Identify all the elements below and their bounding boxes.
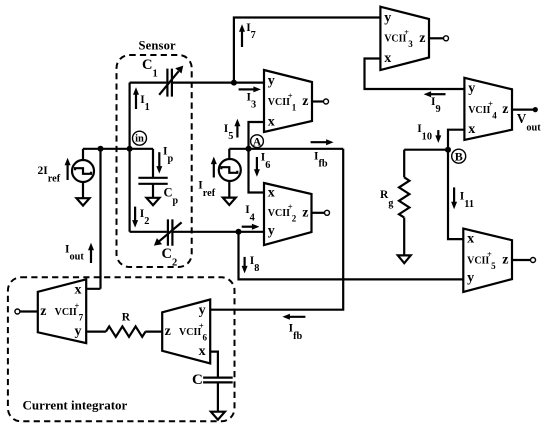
svg-text:7: 7: [79, 312, 84, 322]
node in circle: [133, 131, 147, 145]
svg-text:4: 4: [492, 111, 497, 121]
I5 current arrow: [234, 119, 240, 138]
wire VCII1 x pin down to node A: [249, 122, 265, 149]
wire R to VCII6 z: [145, 331, 162, 333]
VCII7 z terminal: [15, 309, 38, 314]
I11 current arrow: [451, 187, 457, 209]
svg-text:z: z: [302, 94, 308, 109]
Iout current arrow: [88, 243, 94, 263]
wire node B to Rg: [404, 149, 448, 151]
svg-text:+: +: [488, 99, 493, 109]
I1 current arrow: [133, 87, 139, 109]
svg-text:+: +: [75, 300, 80, 310]
svg-text:z: z: [40, 304, 46, 319]
wire VCII3 x to VCII4 y: [365, 59, 465, 90]
svg-text:+: +: [288, 90, 293, 100]
capacitor Cp: [138, 178, 167, 198]
svg-text:x: x: [268, 186, 275, 201]
wire C2 junction down to I8 and across to VCII5 y: [239, 232, 464, 280]
node A junction dot: [246, 146, 252, 152]
op-amp/VCII block U4 (VCII+4): [464, 78, 512, 140]
op-amp/VCII block U5 (VCII+5): [463, 229, 512, 292]
current source 2Iref: [72, 149, 94, 198]
current integrator dashed box: [8, 277, 235, 421]
svg-text:y: y: [75, 324, 82, 339]
node A circle: [251, 135, 264, 149]
wire: junction down to current integrator (Iout wire): [86, 149, 100, 289]
current source Iref: [219, 149, 241, 198]
svg-text:y: y: [199, 303, 206, 318]
ground of Rg: [398, 255, 411, 263]
Ip current arrow: [156, 152, 162, 173]
svg-text:z: z: [502, 253, 508, 268]
junction dot: [231, 80, 237, 86]
I8 current arrow: [242, 257, 248, 274]
op-amp/VCII block U1 (VCII+1): [264, 70, 312, 132]
VCII3 z terminal: [429, 36, 449, 41]
VCII1 z terminal: [312, 99, 329, 104]
svg-text:B: B: [455, 150, 463, 164]
svg-text:R: R: [122, 312, 131, 324]
op-amp/VCII block U2 (VCII+2): [264, 183, 312, 245]
I9 current arrow: [424, 91, 446, 97]
feedback wire node A to VCII6 y: [210, 149, 343, 310]
node B circle: [452, 149, 466, 163]
sensor dashed box: [117, 55, 192, 267]
svg-text:x: x: [468, 122, 475, 137]
svg-text:3: 3: [408, 39, 413, 49]
svg-text:2: 2: [292, 214, 297, 224]
wire Cp branch: [152, 149, 154, 178]
node in junction dot: [127, 146, 133, 152]
svg-text:z: z: [419, 31, 425, 46]
svg-text:z: z: [165, 324, 171, 339]
resistor Rg: [399, 150, 409, 256]
I2 current arrow: [132, 207, 138, 228]
svg-text:A: A: [253, 136, 262, 148]
svg-text:x: x: [268, 114, 275, 129]
I3 current arrow: [239, 86, 261, 92]
junction dot: [236, 229, 242, 235]
ground of Cp: [147, 198, 160, 205]
I7 current arrow: [239, 24, 245, 47]
VCII2 z terminal: [312, 210, 330, 215]
sensor left vertical wire: [129, 83, 131, 232]
svg-text:x: x: [75, 282, 82, 297]
svg-text:in: in: [135, 134, 144, 145]
svg-text:Sensor: Sensor: [139, 38, 177, 52]
node B junction dot: [445, 147, 451, 153]
svg-text:x: x: [467, 232, 474, 247]
svg-text:C: C: [192, 372, 203, 388]
I6 current arrow: [254, 157, 260, 177]
capacitor C1 (variable): [159, 66, 183, 97]
op-amp/VCII block U7 (VCII+7, mirrored): [38, 279, 86, 343]
wire node B down to VCII5 x: [448, 150, 463, 239]
svg-text:y: y: [384, 10, 391, 25]
svg-text:x: x: [199, 344, 206, 359]
capacitor C: [203, 378, 233, 412]
ground of C: [211, 412, 225, 420]
svg-text:Current integrator: Current integrator: [23, 398, 128, 413]
VCII5 z terminal: [512, 258, 536, 263]
svg-text:+: +: [487, 249, 492, 259]
wire through C1: [130, 81, 264, 83]
wire VCII4 x down to node B: [448, 130, 464, 150]
I4 current arrow: [242, 224, 260, 230]
node A horizontal wire: [229, 148, 343, 150]
VCII4 z output to Vout: [512, 107, 538, 112]
svg-text:+: +: [288, 202, 293, 212]
op-amp/VCII block U3 (VCII+3): [380, 7, 429, 70]
wire VCII7 y to resistor R: [86, 331, 106, 333]
capacitor C2 (variable): [154, 219, 182, 245]
ground of Iref: [223, 198, 236, 205]
svg-text:y: y: [467, 271, 474, 286]
svg-text:y: y: [268, 74, 275, 89]
wire VCII1 y junction up and across to VCII3 y: [234, 18, 381, 83]
svg-text:+: +: [199, 321, 204, 331]
2Iref current arrow: [65, 158, 71, 180]
svg-text:y: y: [268, 223, 275, 238]
svg-text:+: +: [404, 27, 409, 37]
Iref current arrow: [211, 157, 217, 178]
ground of 2Iref: [77, 198, 90, 205]
svg-text:1: 1: [292, 102, 297, 112]
wire node A down to VCII2 x pin: [249, 149, 265, 193]
junction dot: [98, 146, 104, 152]
svg-text:y: y: [468, 81, 475, 96]
wire VCII6 x to capacitor C: [210, 352, 218, 378]
svg-text:x: x: [384, 51, 391, 66]
svg-text:6: 6: [203, 333, 208, 343]
svg-text:z: z: [302, 205, 308, 220]
resistor R: [106, 326, 146, 336]
I10 current arrow: [435, 130, 441, 143]
Ifb bottom current arrow: [282, 314, 305, 320]
Ifb top current arrow: [311, 139, 334, 145]
wire through C2: [130, 231, 264, 233]
wire: 2Iref top to in-node to Cp branch: [83, 148, 153, 150]
svg-text:z: z: [502, 102, 508, 117]
svg-text:5: 5: [491, 261, 496, 271]
op-amp/VCII block U6 (VCII+6, mirrored): [162, 300, 210, 364]
